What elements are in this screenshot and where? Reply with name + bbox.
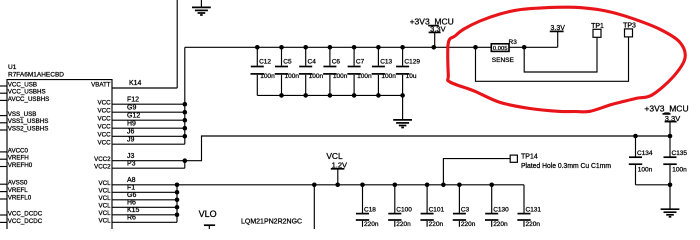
svg-text:220n: 220n [429, 221, 444, 228]
svg-text:100n: 100n [260, 73, 275, 80]
svg-text:VCL: VCL [326, 151, 343, 161]
svg-text:VCC: VCC [98, 116, 112, 123]
svg-text:C134: C134 [637, 150, 653, 157]
svg-text:VCL: VCL [99, 180, 112, 187]
svg-text:VLO: VLO [199, 209, 217, 219]
svg-text:C100: C100 [396, 207, 412, 214]
svg-text:P3: P3 [127, 160, 136, 167]
svg-text:100n: 100n [638, 166, 653, 173]
svg-text:AVSS0: AVSS0 [8, 180, 28, 187]
svg-text:C3: C3 [461, 207, 470, 214]
svg-text:H9: H9 [127, 120, 136, 127]
svg-text:VREFH: VREFH [8, 155, 29, 162]
svg-text:A8: A8 [127, 177, 136, 184]
svg-text:VCL: VCL [99, 210, 112, 217]
svg-text:C13: C13 [380, 58, 392, 65]
svg-text:VSS1_USBHS: VSS1_USBHS [8, 118, 49, 125]
svg-text:220n: 220n [493, 221, 508, 228]
svg-text:TP1: TP1 [591, 23, 604, 30]
svg-text:C18: C18 [364, 207, 376, 214]
svg-text:C4: C4 [308, 58, 317, 65]
svg-text:VCC_DCDC: VCC_DCDC [8, 218, 43, 225]
svg-text:C6: C6 [332, 58, 341, 65]
svg-text:100n: 100n [672, 166, 687, 173]
svg-text:F12: F12 [127, 96, 139, 103]
svg-text:VCL: VCL [99, 203, 112, 210]
svg-text:C131: C131 [526, 207, 542, 214]
svg-text:H6: H6 [127, 200, 136, 207]
svg-text:VREFL: VREFL [8, 187, 29, 194]
svg-text:R7FA6M1AHECBD: R7FA6M1AHECBD [8, 72, 64, 79]
svg-text:VREFH0: VREFH0 [8, 162, 33, 169]
svg-text:VCC: VCC [98, 124, 112, 131]
svg-text:J3: J3 [127, 153, 135, 160]
svg-text:3.3V: 3.3V [550, 25, 565, 32]
svg-text:VCL: VCL [99, 188, 112, 195]
svg-text:C12: C12 [259, 58, 271, 65]
svg-text:C130: C130 [493, 207, 509, 214]
svg-text:K15: K15 [127, 207, 140, 214]
svg-text:VCC: VCC [98, 108, 112, 115]
svg-text:VCC_DCDC: VCC_DCDC [8, 210, 43, 217]
svg-text:U1: U1 [8, 64, 17, 71]
svg-text:AVCC0: AVCC0 [8, 147, 29, 154]
svg-text:VCC2: VCC2 [94, 156, 111, 163]
svg-text:1.2V: 1.2V [332, 160, 347, 169]
svg-text:C129: C129 [404, 58, 420, 65]
svg-text:VSS_USB: VSS_USB [8, 111, 37, 118]
svg-text:AVCC_USBHS: AVCC_USBHS [8, 96, 50, 103]
svg-text:C5: C5 [283, 58, 292, 65]
svg-text:3.3V: 3.3V [430, 25, 445, 34]
svg-text:VCC2: VCC2 [94, 164, 111, 171]
svg-text:100n: 100n [285, 73, 300, 80]
svg-text:VCC: VCC [98, 140, 112, 147]
svg-text:VCC_USBHS: VCC_USBHS [8, 89, 46, 96]
svg-text:+3V3_MCU: +3V3_MCU [644, 103, 688, 113]
svg-text:100n: 100n [309, 73, 324, 80]
svg-text:SENSE: SENSE [492, 57, 515, 64]
svg-text:VCL: VCL [99, 218, 112, 225]
svg-text:C7: C7 [356, 58, 365, 65]
svg-text:VSS2_USBHS: VSS2_USBHS [8, 125, 49, 132]
svg-text:10u: 10u [406, 73, 417, 80]
svg-text:100n: 100n [381, 73, 396, 80]
svg-text:TP14: TP14 [521, 153, 538, 160]
svg-text:LQM21PN2R2NGC: LQM21PN2R2NGC [241, 219, 302, 226]
svg-text:220n: 220n [526, 221, 541, 228]
svg-text:G9: G9 [127, 104, 136, 111]
svg-text:VREFL0: VREFL0 [8, 194, 32, 201]
svg-text:TP3: TP3 [623, 23, 636, 30]
svg-text:VCC_USB: VCC_USB [8, 81, 37, 88]
svg-text:VCC: VCC [98, 132, 112, 139]
svg-text:220n: 220n [396, 221, 411, 228]
svg-text:VBATT: VBATT [91, 81, 111, 88]
svg-text:100n: 100n [357, 73, 372, 80]
svg-text:100n: 100n [333, 73, 348, 80]
svg-text:3.3V: 3.3V [665, 114, 680, 123]
svg-text:G12: G12 [127, 112, 140, 119]
svg-text:220n: 220n [364, 221, 379, 228]
svg-text:F1: F1 [127, 185, 135, 192]
svg-text:0.005: 0.005 [493, 46, 508, 52]
svg-text:R6: R6 [127, 215, 136, 222]
svg-text:C101: C101 [429, 207, 445, 214]
svg-text:R3: R3 [509, 39, 518, 46]
svg-text:VCL: VCL [99, 195, 112, 202]
svg-text:C135: C135 [672, 150, 688, 157]
svg-text:G6: G6 [127, 192, 136, 199]
svg-text:J6: J6 [127, 129, 135, 136]
svg-text:Plated Hole 0.3mm Cu C1mm: Plated Hole 0.3mm Cu C1mm [521, 163, 611, 170]
svg-text:220n: 220n [461, 221, 476, 228]
svg-text:K14: K14 [129, 80, 142, 87]
svg-text:VCC: VCC [98, 100, 112, 107]
svg-text:J9: J9 [127, 136, 135, 143]
